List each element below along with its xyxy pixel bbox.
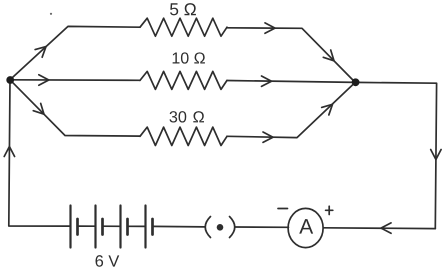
plug key K1 left jaw	[205, 217, 210, 238]
current arrow on bottom wire (leftward)	[381, 223, 391, 233]
ammeter plus terminal mark	[326, 206, 333, 214]
wire: 5-ohm resistor to right node (horizontal then diagonal)	[227, 28, 355, 83]
wire: battery cell 3 to cell 4	[128, 225, 146, 227]
battery B1 cell 1 short plate	[76, 219, 79, 235]
ammeter minus terminal mark	[278, 208, 288, 210]
current arrow on lower-left diagonal	[33, 103, 47, 117]
label: 6 V	[96, 255, 120, 267]
wire: left node to 30-ohm resistor (diagonal then horizontal)	[10, 80, 140, 136]
label: 10 ohm	[173, 52, 205, 63]
current arrow on right vertical wire (downward)	[431, 150, 441, 160]
wire: battery cell 1 to cell 2	[78, 225, 96, 227]
resistor R2 (10 ohm) zigzag	[140, 71, 227, 89]
wire: plug key to battery	[153, 225, 205, 228]
plug key K1 right jaw	[230, 217, 235, 238]
ammeter letter A	[299, 219, 313, 233]
wire: 10-ohm resistor to right node	[227, 81, 355, 83]
battery B1 cell 3 long plate	[119, 206, 121, 248]
node A (left junction)	[6, 76, 14, 84]
current arrow on 30-ohm output wire	[263, 132, 273, 142]
wire: battery to bottom-left corner then up left side to node	[9, 80, 71, 226]
current arrow on middle-left wire	[39, 75, 49, 85]
label: 30 ohm	[170, 111, 205, 122]
node B (right junction)	[352, 78, 360, 86]
current arrow on 5-ohm output wire	[265, 23, 275, 33]
battery B1 cell 4 long plate	[144, 206, 146, 248]
current arrow on lower-right diagonal	[322, 101, 336, 115]
battery B1 cell 2 long plate	[94, 206, 96, 248]
label: 5 ohm	[170, 3, 196, 15]
current arrow on 10-ohm output wire	[262, 76, 272, 86]
wire: bottom-right corner to ammeter positive terminal	[324, 227, 436, 230]
wire: left node to 5-ohm resistor (diagonal then horizontal)	[10, 26, 140, 79]
wire: left node to 10-ohm resistor	[10, 79, 140, 82]
resistor R1 (5 ohm) zigzag	[140, 18, 227, 36]
current arrow on left vertical wire (upward)	[4, 147, 14, 157]
wire: ammeter to plug key	[236, 226, 289, 228]
resistor R3 (30 ohm) zigzag	[140, 127, 227, 145]
plug key K1 plug dot	[217, 224, 224, 231]
ammeter A1 body	[288, 208, 323, 247]
current arrow on upper-left diagonal	[35, 43, 49, 57]
battery B1 cell 1 long plate	[69, 206, 71, 248]
wire: right node to top-right corner then down right side	[355, 82, 436, 228]
current arrow on upper-right diagonal	[323, 50, 337, 64]
battery B1 cell 2 short plate	[101, 219, 104, 235]
wire: 30-ohm resistor to right node (horizontal then diagonal)	[227, 82, 355, 137]
wire: battery cell 2 to cell 3	[103, 225, 121, 227]
battery B1 cell 3 short plate	[126, 219, 129, 235]
battery B1 cell 4 short plate	[151, 219, 154, 235]
stray scan speck	[50, 13, 52, 15]
